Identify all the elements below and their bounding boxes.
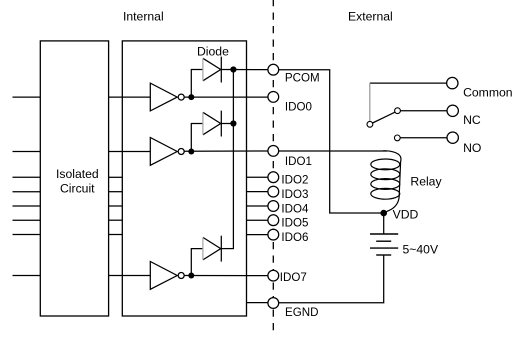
relay coil L1 (371, 151, 401, 213)
switch NO contact (394, 135, 400, 141)
dashed isolation boundary line (272, 0, 274, 335)
terminal IDO5 (268, 215, 279, 226)
label NO (463, 141, 481, 155)
svg-text:PCOM: PCOM (285, 72, 320, 85)
label NC (463, 113, 481, 127)
junction node inverter A2 output (188, 149, 194, 155)
svg-text:Circuit: Circuit (60, 181, 95, 195)
label PCOM (285, 72, 320, 85)
svg-text:IDO4: IDO4 (281, 202, 309, 215)
svg-text:5~40V: 5~40V (403, 243, 439, 257)
junction node diode D2 cathode (230, 120, 236, 126)
label IDO7 (280, 271, 307, 284)
wire diode D2 anode stub (191, 124, 205, 152)
wire diode D3 anode stub (191, 249, 205, 276)
wire isolated-to-inverter row IDO1 (109, 151, 151, 153)
inverter gate A2 (150, 138, 184, 166)
wire stub EGND terminal (247, 302, 269, 304)
label Relay (410, 174, 442, 188)
svg-text:IDO1: IDO1 (285, 155, 312, 168)
diode D3 (203, 236, 221, 262)
wire NO lead (400, 137, 447, 139)
label Internal (123, 10, 164, 24)
label Diode (197, 44, 229, 58)
node VDD junction (380, 210, 387, 217)
wire input row IDO6 (13, 234, 41, 236)
wire input row IDO2 (13, 176, 41, 178)
label VDD (393, 207, 419, 221)
wire common terminal lead (370, 82, 447, 84)
terminal NC (447, 105, 458, 116)
wire stub IDO4 terminal (247, 205, 269, 207)
battery BT1 (370, 213, 398, 255)
inverter gate A3 (150, 262, 184, 290)
wire input row IDO3 (13, 191, 41, 193)
diode D1 (203, 57, 221, 83)
label IDO2 (281, 174, 308, 187)
wire stub row IDO4 (109, 205, 123, 207)
label IDO0 (285, 101, 312, 114)
label EGND (285, 306, 319, 319)
wire stub row IDO6 (109, 234, 123, 236)
junction node inverter A1 output (188, 94, 194, 100)
label Isolated Circuit (56, 167, 99, 195)
terminal IDO1 (268, 146, 279, 157)
terminal IDO7 (268, 270, 279, 281)
terminal PCOM (268, 64, 279, 75)
wire diode D1 cathode to PCOM (221, 69, 268, 71)
svg-text:VDD: VDD (393, 207, 419, 221)
wire stub row IDO3 (109, 191, 123, 193)
svg-text:IDO0: IDO0 (285, 101, 312, 114)
terminal Common (447, 77, 458, 88)
switch arm SW1 (373, 112, 395, 123)
svg-text:IDO7: IDO7 (280, 271, 307, 284)
wire switch pole drop (gray) (369, 83, 371, 121)
terminal EGND (268, 298, 279, 309)
wire IDO1 to relay coil (279, 150, 388, 152)
wire diode D3 cathode to bus (221, 248, 234, 250)
switch NC contact (395, 108, 401, 114)
wire input row IDO7 (13, 275, 41, 277)
wire EGND to battery negative (279, 255, 384, 303)
svg-text:IDO2: IDO2 (281, 174, 308, 187)
wire PCOM to VDD (279, 70, 381, 213)
wire stub IDO3 terminal (247, 191, 269, 193)
svg-text:External: External (348, 10, 393, 24)
wire stub IDO6 terminal (247, 234, 269, 236)
label IDO1 (285, 155, 312, 168)
wire freewheel cathode bus (232, 70, 234, 249)
svg-text:NC: NC (463, 113, 481, 127)
terminal IDO4 (268, 201, 279, 212)
wire isolated-to-inverter row IDO7 (109, 275, 151, 277)
junction node diode D1 cathode (230, 66, 236, 72)
wire input row IDO5 (13, 219, 41, 221)
svg-text:Common: Common (463, 86, 512, 100)
wire inverter A2 output to IDO1 (184, 150, 268, 152)
svg-text:Relay: Relay (410, 174, 442, 188)
internal block boundary box (122, 41, 246, 316)
wire stub row IDO5 (109, 219, 123, 221)
isolated circuit block U1 (40, 41, 108, 316)
wire NC lead (400, 110, 447, 112)
svg-text:Isolated: Isolated (56, 167, 99, 181)
wire stub IDO2 terminal (247, 176, 269, 178)
terminal IDO2 (268, 172, 279, 183)
terminal IDO0 (268, 92, 279, 103)
wire stub row IDO2 (109, 176, 123, 178)
label IDO4 (281, 202, 309, 215)
svg-text:NO: NO (463, 141, 481, 155)
label IDO3 (281, 188, 308, 201)
wire diode D2 cathode to bus (221, 123, 233, 125)
svg-text:IDO6: IDO6 (281, 231, 308, 244)
wire diode D1 anode stub (191, 70, 205, 98)
diode D2 (203, 111, 221, 137)
svg-text:Internal: Internal (123, 10, 164, 24)
switch pivot contact (367, 121, 373, 127)
wire stub IDO5 terminal (247, 219, 269, 221)
label Common (463, 86, 512, 100)
svg-text:IDO5: IDO5 (281, 217, 308, 230)
label IDO5 (281, 217, 308, 230)
label External (348, 10, 393, 24)
wire input row IDO1 (13, 151, 41, 153)
label 5~40V (403, 243, 439, 257)
terminal IDO6 (268, 229, 279, 240)
svg-text:EGND: EGND (285, 306, 319, 319)
terminal NO (447, 132, 458, 143)
wire input row IDO4 (13, 205, 41, 207)
wire inverter A3 output to IDO7 (184, 275, 268, 277)
svg-text:Diode: Diode (197, 44, 229, 58)
wire input row IDO0 (13, 96, 41, 98)
wire inverter A1 output to IDO0 (184, 96, 268, 98)
svg-text:IDO3: IDO3 (281, 188, 308, 201)
wire isolated-to-inverter row IDO0 (109, 96, 151, 98)
label IDO6 (281, 231, 308, 244)
junction node inverter A3 output (188, 273, 194, 279)
inverter gate A1 (150, 83, 184, 111)
terminal IDO3 (268, 186, 279, 197)
